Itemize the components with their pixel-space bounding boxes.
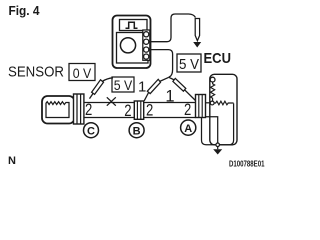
ECU terminal node xyxy=(210,101,214,105)
node C ring xyxy=(84,123,99,138)
pull-up resistor vertical xyxy=(211,82,215,101)
probe at connector A xyxy=(173,78,196,100)
multimeter display window xyxy=(120,20,148,31)
internal resistor horizontal xyxy=(214,101,234,105)
ground probe arrow xyxy=(193,42,201,48)
svg-text:A: A xyxy=(184,123,192,135)
connector A block xyxy=(196,95,206,118)
svg-text:B: B xyxy=(133,125,141,137)
node B ring xyxy=(129,123,144,138)
wire bottom B to A xyxy=(144,117,196,119)
voltage box 5V at ECU xyxy=(177,54,201,72)
multimeter pulse symbol xyxy=(126,22,138,28)
multimeter dial xyxy=(120,38,135,53)
multimeter jack 4 xyxy=(144,54,149,59)
multimeter jack 3 xyxy=(144,47,149,52)
connector B block xyxy=(134,101,143,119)
svg-text:1: 1 xyxy=(138,78,146,95)
svg-text:5 V: 5 V xyxy=(114,78,133,93)
open circuit mark X xyxy=(107,97,116,105)
wire bottom C to B xyxy=(84,117,134,119)
voltage box 0V at sensor xyxy=(69,64,95,81)
svg-text:ECU: ECU xyxy=(204,50,232,67)
probe lead split left xyxy=(160,77,169,81)
ECU 5V terminal xyxy=(210,77,215,82)
sensor element resistor xyxy=(46,102,69,118)
multimeter jack strip xyxy=(143,30,150,60)
svg-text:C: C xyxy=(87,125,95,137)
svg-text:2: 2 xyxy=(184,100,191,119)
svg-text:Fig. 4: Fig. 4 xyxy=(9,3,41,18)
sensor body xyxy=(42,96,75,124)
test lead wire to harness probes xyxy=(149,50,173,78)
svg-text:5 V: 5 V xyxy=(179,56,199,73)
wire top B to A xyxy=(144,102,196,104)
ground symbol xyxy=(213,147,222,155)
svg-text:1: 1 xyxy=(165,88,174,106)
connector C block xyxy=(74,94,84,124)
internal wire right down xyxy=(229,103,233,144)
ground node xyxy=(216,143,220,147)
multimeter inner panel xyxy=(117,33,149,64)
wire connector A to ECU node xyxy=(206,102,211,104)
svg-text:0 V: 0 V xyxy=(73,65,92,81)
wire connector A to ground branch xyxy=(206,117,218,143)
node A ring xyxy=(181,120,196,135)
ground probe body xyxy=(195,19,199,41)
probe at connector C xyxy=(90,78,114,99)
probe at connector B xyxy=(144,79,160,101)
svg-text:2: 2 xyxy=(124,101,131,120)
svg-text:SENSOR: SENSOR xyxy=(8,65,64,81)
svg-text:N: N xyxy=(8,155,16,167)
multimeter U1 body xyxy=(113,16,151,69)
internal ground wire loop from connector A xyxy=(202,118,230,145)
svg-text:D100788E01: D100788E01 xyxy=(229,160,265,169)
test lead wire to ground probe xyxy=(149,14,196,42)
ECU box xyxy=(210,74,237,145)
probe lead split right xyxy=(169,77,176,80)
wire top C to B xyxy=(84,102,134,104)
voltage box 5V at harness wire 1 xyxy=(112,77,134,92)
svg-text:2: 2 xyxy=(146,100,153,119)
multimeter jack 2 xyxy=(144,39,149,44)
multimeter jack 1 xyxy=(144,32,149,37)
